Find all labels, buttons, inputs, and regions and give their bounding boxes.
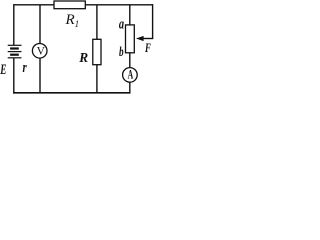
wiper arrow <box>143 38 153 40</box>
svg-text:a: a <box>119 17 125 33</box>
wire left upper (battery to top wire) <box>13 4 15 45</box>
wire left lower (battery to bottom wire) <box>13 58 15 94</box>
battery E r <box>8 45 22 58</box>
wire rheostat to ammeter <box>129 53 131 68</box>
wire resistor R bottom <box>96 65 98 93</box>
wire resistor R top <box>96 5 98 40</box>
resistor R1 <box>54 1 85 9</box>
svg-text:R1: R1 <box>65 12 80 29</box>
wire ammeter bottom <box>129 82 131 93</box>
svg-text:A: A <box>128 67 134 82</box>
wire voltmeter top <box>39 5 41 44</box>
resistor R <box>93 39 101 64</box>
svg-text:V: V <box>37 46 46 58</box>
svg-text:r: r <box>23 60 27 76</box>
ammeter A1 <box>123 68 138 83</box>
wire right edge (top wire to wiper) <box>152 4 154 38</box>
wire bottom <box>13 92 130 94</box>
svg-text:F: F <box>144 40 151 55</box>
wire voltmeter bottom <box>39 58 41 93</box>
svg-text:E: E <box>0 62 6 78</box>
svg-text:b: b <box>119 45 124 60</box>
voltmeter V1 <box>32 44 47 59</box>
svg-text:R: R <box>78 50 88 65</box>
rheostat body <box>126 25 135 53</box>
wire rheostat top <box>129 5 131 25</box>
wire top <box>14 4 153 6</box>
